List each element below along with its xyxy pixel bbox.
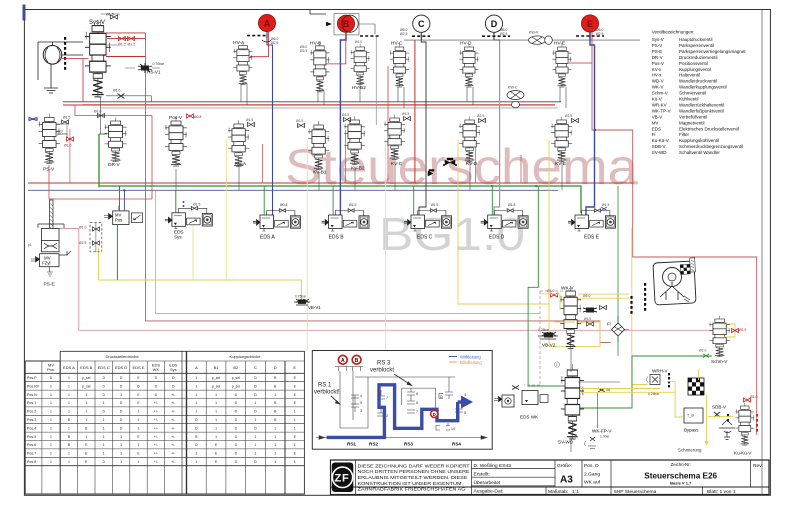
svg-text:1: 1 xyxy=(68,452,70,456)
svg-text:+/-: +/- xyxy=(171,452,175,456)
svg-text:1: 1 xyxy=(195,376,197,380)
svg-text:A: A xyxy=(264,18,271,28)
svg-text:Rev:: Rev: xyxy=(753,463,763,469)
svg-text:EDS WK: EDS WK xyxy=(520,415,539,420)
svg-text:Ø1.5: Ø1.5 xyxy=(113,89,120,93)
svg-text:RS1: RS1 xyxy=(347,442,356,447)
svg-text:Sys: Sys xyxy=(170,367,177,372)
svg-text:D. Weßling ES43: D. Weßling ES43 xyxy=(474,463,512,469)
svg-text:1: 1 xyxy=(85,393,87,397)
svg-text:1: 1 xyxy=(294,443,296,447)
svg-text:1: 1 xyxy=(274,393,276,397)
svg-text:1: 1 xyxy=(68,376,70,380)
svg-text:1: 1 xyxy=(195,393,197,397)
svg-text:Ø1.0: Ø1.0 xyxy=(94,110,101,114)
svg-text:Vorbefüllventil: Vorbefüllventil xyxy=(679,114,707,119)
svg-text:RS2: RS2 xyxy=(369,442,378,447)
svg-text:KV-E: KV-E xyxy=(555,161,566,167)
svg-text:Basis V 1.7: Basis V 1.7 xyxy=(670,481,692,486)
svg-text:FZyl: FZyl xyxy=(42,261,51,266)
svg-text:Ø1.2: Ø1.2 xyxy=(128,43,136,47)
svg-text:KV-D: KV-D xyxy=(466,161,478,167)
svg-text:1: 1 xyxy=(294,418,296,422)
svg-text:D: D xyxy=(274,365,277,370)
svg-text:Pos.RV: Pos.RV xyxy=(27,384,40,388)
svg-text:1: 1 xyxy=(138,418,140,422)
svg-text:+/-: +/- xyxy=(154,452,158,456)
svg-text:Größe:: Größe: xyxy=(557,463,572,469)
svg-text:1: 1 xyxy=(103,426,105,430)
svg-text:WD-V: WD-V xyxy=(652,79,664,84)
svg-text:KV-C: KV-C xyxy=(391,161,403,167)
svg-text:Pos-V: Pos-V xyxy=(652,61,664,66)
svg-text:10: 10 xyxy=(451,427,455,431)
svg-text:EDS D: EDS D xyxy=(115,365,127,370)
svg-text:VB-V1: VB-V1 xyxy=(308,305,321,310)
svg-text:μ60cm³: μ60cm³ xyxy=(57,132,68,136)
svg-text:Ø1.5: Ø1.5 xyxy=(296,119,303,123)
svg-text:1: 1 xyxy=(255,452,257,456)
svg-text:Ø1.5: Ø1.5 xyxy=(193,203,200,207)
svg-text:p_sel: p_sel xyxy=(82,376,90,380)
svg-text:2: 2 xyxy=(556,363,558,367)
svg-text:Ø0.8: Ø0.8 xyxy=(280,203,287,207)
svg-text:1: 1 xyxy=(294,410,296,414)
svg-text:verblockt!: verblockt! xyxy=(314,390,340,396)
svg-text:Sys-V: Sys-V xyxy=(89,20,105,26)
svg-text:RS 3: RS 3 xyxy=(377,361,391,367)
svg-text:Ø1.0: Ø1.0 xyxy=(355,40,362,44)
svg-text:6: 6 xyxy=(416,392,418,396)
svg-text:Ø5.0: Ø5.0 xyxy=(583,294,590,298)
svg-text:1: 1 xyxy=(255,443,257,447)
svg-text:Pos.P: Pos.P xyxy=(27,376,37,380)
svg-text:1: 1 xyxy=(138,443,140,447)
svg-text:1: 1 xyxy=(215,393,217,397)
svg-text:1: 1 xyxy=(215,426,217,430)
svg-text:WK: WK xyxy=(153,367,160,372)
svg-text:Ø1.0: Ø1.0 xyxy=(699,349,706,353)
svg-text:p_sel: p_sel xyxy=(232,376,240,380)
svg-text:Elektrisches Druckstellerventi: Elektrisches Druckstellerventil xyxy=(679,126,739,131)
svg-text:EDS: EDS xyxy=(652,126,661,131)
svg-text:A: A xyxy=(195,365,198,370)
svg-text:E: E xyxy=(293,365,296,370)
svg-text:+/-: +/- xyxy=(171,443,175,447)
svg-text:EDS D: EDS D xyxy=(489,235,505,241)
svg-text:WK-V: WK-V xyxy=(652,85,664,90)
svg-text:Schmierventil: Schmierventil xyxy=(679,91,706,96)
svg-text:KV-B1: KV-B1 xyxy=(313,170,327,176)
svg-text:A3: A3 xyxy=(560,475,573,486)
svg-text:1: 1 xyxy=(274,443,276,447)
svg-text:Ø1.5: Ø1.5 xyxy=(349,203,356,207)
svg-text:Kü-V: Kü-V xyxy=(652,97,662,102)
svg-text:+/-: +/- xyxy=(154,418,158,422)
svg-text:KV-B2: KV-B2 xyxy=(351,166,365,172)
svg-text:C: C xyxy=(254,365,257,370)
svg-text:p_sel: p_sel xyxy=(232,384,240,388)
svg-text:+/-: +/- xyxy=(154,435,158,439)
svg-text:1: 1 xyxy=(50,410,52,414)
svg-text:1: 1 xyxy=(68,401,70,405)
svg-text:A: A xyxy=(341,358,345,364)
svg-text:5: 5 xyxy=(464,411,466,415)
svg-text:Pos.8: Pos.8 xyxy=(27,460,36,464)
svg-text:1: 1 xyxy=(103,418,105,422)
svg-text:1: 1 xyxy=(68,460,70,464)
svg-text:Ø1.0: Ø1.0 xyxy=(79,225,86,229)
svg-text:0.25bar: 0.25bar xyxy=(295,295,307,299)
svg-text:Fi: Fi xyxy=(652,132,656,137)
svg-text:1: 1 xyxy=(195,460,197,464)
svg-text:+/-: +/- xyxy=(154,460,158,464)
svg-text:VB-V: VB-V xyxy=(652,114,663,119)
svg-text:EDS E: EDS E xyxy=(132,365,144,370)
svg-text:1: 1 xyxy=(50,384,52,388)
svg-text:Schm-V: Schm-V xyxy=(652,91,668,96)
svg-text:Halteventil: Halteventil xyxy=(679,73,700,78)
svg-text:3: 3 xyxy=(360,409,362,413)
svg-text:1: 1 xyxy=(120,393,122,397)
svg-text:ZAHNRADFABRIK FRIEDRICHSHAFEN: ZAHNRADFABRIK FRIEDRICHSHAFEN AG xyxy=(358,487,467,492)
svg-text:Pos.4: Pos.4 xyxy=(27,426,36,430)
svg-text:T_öl: T_öl xyxy=(687,414,694,418)
svg-text:0.70bar: 0.70bar xyxy=(153,62,165,66)
svg-text:B: B xyxy=(343,19,350,29)
svg-text:1: 1 xyxy=(103,401,105,405)
svg-text:Ø1.5: Ø1.5 xyxy=(246,118,253,122)
svg-text:EDS A: EDS A xyxy=(260,235,275,241)
svg-text:+/-: +/- xyxy=(171,460,175,464)
svg-text:+/-: +/- xyxy=(171,435,175,439)
svg-text:Ø1.5: Ø1.5 xyxy=(342,113,349,117)
svg-text:Ø1.5: Ø1.5 xyxy=(584,317,591,321)
svg-text:Blatt: 1 von 1: Blatt: 1 von 1 xyxy=(707,489,736,495)
svg-text:Ø2.5: Ø2.5 xyxy=(596,32,603,36)
svg-text:Pos.: Pos. xyxy=(47,367,55,372)
svg-text:1: 1 xyxy=(50,452,52,456)
svg-text:PS-V: PS-V xyxy=(652,43,663,48)
svg-text:Ku-Kü-V: Ku-Kü-V xyxy=(652,138,669,143)
svg-text:D: D xyxy=(433,412,436,417)
svg-text:Ø1.0: Ø1.0 xyxy=(750,395,757,399)
svg-text:1: 1 xyxy=(138,460,140,464)
svg-text:1.0bar: 1.0bar xyxy=(600,435,610,439)
svg-text:HV-A: HV-A xyxy=(233,40,245,46)
svg-text:+/-: +/- xyxy=(154,401,158,405)
svg-text:Schmierung: Schmierung xyxy=(678,448,702,453)
svg-text:Überarbeitet: Überarbeitet xyxy=(474,479,502,486)
svg-text:1: 1 xyxy=(274,452,276,456)
svg-text:Wandlerfußpunktventil: Wandlerfußpunktventil xyxy=(679,108,724,113)
svg-text:Pos.1: Pos.1 xyxy=(27,401,36,405)
svg-text:WK-TP-V: WK-TP-V xyxy=(652,108,671,113)
svg-text:1: 1 xyxy=(274,435,276,439)
svg-text:Druckstellerdrücke: Druckstellerdrücke xyxy=(105,354,139,359)
svg-text:1: 1 xyxy=(103,435,105,439)
svg-text:Magnetventil: Magnetventil xyxy=(679,120,705,125)
svg-text:C: C xyxy=(418,19,425,29)
svg-text:1: 1 xyxy=(274,426,276,430)
svg-text:Ventilbezeichnungen:: Ventilbezeichnungen: xyxy=(652,30,695,35)
svg-text:Kupplungskühlventil: Kupplungskühlventil xyxy=(679,138,719,143)
svg-text:Ø1.5: Ø1.5 xyxy=(508,203,515,207)
svg-text:1: 1 xyxy=(85,435,87,439)
svg-text:Pos-V: Pos-V xyxy=(169,115,183,121)
svg-text:Filter: Filter xyxy=(679,132,690,137)
svg-text:Wandlerkupplungsventil: Wandlerkupplungsventil xyxy=(679,85,727,90)
svg-text:HV-E: HV-E xyxy=(554,41,565,47)
svg-text:Ø1.5: Ø1.5 xyxy=(565,114,572,118)
svg-text:Parksperrenventil: Parksperrenventil xyxy=(679,43,714,48)
svg-text:+/-: +/- xyxy=(154,426,158,430)
svg-text:SDB-V: SDB-V xyxy=(652,144,666,149)
svg-text:Schm-V: Schm-V xyxy=(711,359,728,364)
svg-text:SV-WD: SV-WD xyxy=(652,150,668,155)
svg-text:DIESE ZEICHNUNG DARF WEDER KOP: DIESE ZEICHNUNG DARF WEDER KOPIERT xyxy=(358,463,470,468)
svg-text:EDS E: EDS E xyxy=(584,235,600,241)
svg-text:MV: MV xyxy=(652,120,659,125)
svg-text:SDB-V: SDB-V xyxy=(712,405,727,410)
svg-text:+/-: +/- xyxy=(171,401,175,405)
svg-text:4: 4 xyxy=(464,393,466,397)
svg-text:1: 1 xyxy=(138,426,140,430)
svg-text:1: 1 xyxy=(274,460,276,464)
svg-text:verblockt: verblockt xyxy=(370,368,394,374)
svg-text:Parksperrenverriegelungsmagnet: Parksperrenverriegelungsmagnet xyxy=(679,49,746,54)
svg-text:PS-E: PS-E xyxy=(44,282,55,288)
svg-text:KW-V: KW-V xyxy=(529,31,539,35)
svg-text:1: 1 xyxy=(103,443,105,447)
svg-text:1: 1 xyxy=(255,418,257,422)
svg-text:Kupplungsdrücke: Kupplungsdrücke xyxy=(230,354,262,359)
svg-text:1: 1 xyxy=(50,418,52,422)
svg-text:Pos.6: Pos.6 xyxy=(27,443,36,447)
svg-text:Pos.N: Pos.N xyxy=(27,393,37,397)
svg-text:+/-: +/- xyxy=(171,410,175,414)
svg-text:1: 1 xyxy=(50,460,52,464)
svg-text:1: 1 xyxy=(215,435,217,439)
svg-text:HV-x: HV-x xyxy=(652,73,663,78)
svg-text:VB-V2: VB-V2 xyxy=(542,343,556,348)
svg-text:7: 7 xyxy=(386,396,388,400)
svg-text:NOCH DRITTEN PERSONEN OHNE UNS: NOCH DRITTEN PERSONEN OHNE UNSERE xyxy=(358,469,470,474)
svg-text:1: 1 xyxy=(138,410,140,414)
svg-text:E: E xyxy=(587,19,593,29)
svg-text:Blindleitung: Blindleitung xyxy=(460,360,482,365)
svg-text:Pos. D: Pos. D xyxy=(584,463,599,469)
svg-text:Wandlerdruckventil: Wandlerdruckventil xyxy=(679,79,717,84)
svg-text:Ausgabe-Dat:: Ausgabe-Dat: xyxy=(474,489,504,495)
svg-text:KONSTRUKTION IST UNSER EIGENTU: KONSTRUKTION IST UNSER EIGENTUM xyxy=(358,481,462,486)
svg-text:Ø1.5: Ø1.5 xyxy=(63,116,70,120)
svg-text:B2: B2 xyxy=(233,365,239,370)
svg-text:KV-x: KV-x xyxy=(652,67,662,72)
svg-text:1: 1 xyxy=(195,384,197,388)
svg-text:Kupplungsventil: Kupplungsventil xyxy=(679,67,711,72)
svg-text:EDS A: EDS A xyxy=(63,365,75,370)
svg-text:Ø1.5: Ø1.5 xyxy=(477,114,484,118)
svg-text:Pos.5: Pos.5 xyxy=(27,435,36,439)
svg-text:Ø2.5: Ø2.5 xyxy=(300,49,307,53)
svg-text:D: D xyxy=(491,19,498,29)
svg-text:1: 1 xyxy=(120,435,122,439)
svg-text:ERLAUBNIS MITGETEILT WERDEN. D: ERLAUBNIS MITGETEILT WERDEN. DIESE xyxy=(358,475,468,480)
svg-text:HV-B2: HV-B2 xyxy=(352,85,366,91)
svg-text:+/-: +/- xyxy=(154,443,158,447)
svg-text:WR-KV: WR-KV xyxy=(652,102,667,107)
svg-text:Maßstab:: Maßstab: xyxy=(548,489,568,495)
svg-text:1: 1 xyxy=(294,460,296,464)
svg-text:Ø0.8: Ø0.8 xyxy=(194,115,201,119)
svg-text:1: 1 xyxy=(50,443,52,447)
svg-text:EDS C: EDS C xyxy=(417,235,433,241)
svg-text:Ø2.5: Ø2.5 xyxy=(271,41,278,45)
svg-text:1: 1 xyxy=(50,426,52,430)
svg-text:PS-V: PS-V xyxy=(43,167,55,173)
svg-text:1: 1 xyxy=(68,393,70,397)
svg-text:Ø1.5: Ø1.5 xyxy=(106,13,114,17)
svg-text:WK-FP-V: WK-FP-V xyxy=(592,429,612,434)
svg-text:D: D xyxy=(440,395,443,399)
svg-text:1: 1 xyxy=(50,401,52,405)
svg-text:EDS C: EDS C xyxy=(98,365,110,370)
svg-text:1: 1 xyxy=(68,426,70,430)
svg-text:1: 1 xyxy=(85,418,87,422)
svg-text:p_sel: p_sel xyxy=(212,384,220,388)
svg-text:Wandlerrückhalteventil: Wandlerrückhalteventil xyxy=(679,102,724,107)
svg-text:Ø1.5: Ø1.5 xyxy=(431,203,438,207)
svg-text:Sys-V: Sys-V xyxy=(652,37,664,42)
svg-text:1: 1 xyxy=(215,410,217,414)
svg-text:Z: Z xyxy=(335,473,342,485)
svg-text:Ø2.5: Ø2.5 xyxy=(500,32,507,36)
svg-text:EDS B: EDS B xyxy=(80,365,92,370)
svg-text:PS-E: PS-E xyxy=(652,49,663,54)
svg-text:HV-C: HV-C xyxy=(391,41,403,47)
svg-text:1: 1 xyxy=(215,401,217,405)
svg-text:EDS B: EDS B xyxy=(329,235,345,241)
svg-text:1: 1 xyxy=(255,435,257,439)
svg-text:Wirkleitung: Wirkleitung xyxy=(460,354,481,359)
svg-text:1: 1 xyxy=(215,418,217,422)
svg-text:WRH-V: WRH-V xyxy=(652,369,669,374)
svg-text:Ø1.5: Ø1.5 xyxy=(402,112,409,116)
svg-text:1: 1 xyxy=(50,393,52,397)
svg-text:Schmierdruckbegrenzungsventil: Schmierdruckbegrenzungsventil xyxy=(679,144,743,149)
svg-text:Pos: Pos xyxy=(115,218,122,223)
svg-text:RS 1: RS 1 xyxy=(318,383,332,389)
svg-text:F: F xyxy=(342,473,349,485)
svg-text:Pos.3: Pos.3 xyxy=(27,418,36,422)
svg-text:KV-A: KV-A xyxy=(235,161,247,167)
svg-text:Fi: Fi xyxy=(607,322,611,327)
svg-text:1: 1 xyxy=(68,384,70,388)
svg-text:KW-C: KW-C xyxy=(508,86,518,90)
svg-text:HV-B: HV-B xyxy=(310,41,321,47)
svg-text:B: B xyxy=(355,358,359,364)
svg-text:1: 1 xyxy=(68,410,70,414)
svg-text:Ø2.5: Ø2.5 xyxy=(400,32,407,36)
svg-text:Sys: Sys xyxy=(174,235,182,240)
svg-text:Schaltventil Wandler: Schaltventil Wandler xyxy=(679,150,720,155)
svg-text:1: 1 xyxy=(50,435,52,439)
svg-text:9: 9 xyxy=(360,401,362,405)
svg-text:Erstellt:: Erstellt: xyxy=(474,471,490,477)
svg-text:DR-V: DR-V xyxy=(108,162,121,168)
svg-text:p1: p1 xyxy=(28,243,32,247)
svg-text:2.Gang: 2.Gang xyxy=(584,471,600,477)
svg-text:RS-V1: RS-V1 xyxy=(147,70,161,75)
svg-text:1: 1 xyxy=(120,452,122,456)
svg-text:+/-: +/- xyxy=(154,410,158,414)
svg-text:2: 2 xyxy=(386,414,388,418)
svg-text:WK-V: WK-V xyxy=(561,286,574,292)
svg-text:5HP Steuerschema: 5HP Steuerschema xyxy=(614,489,657,495)
svg-text:Kühlventil: Kühlventil xyxy=(679,97,699,102)
svg-text:p_sel: p_sel xyxy=(212,376,220,380)
svg-text:p_sel: p_sel xyxy=(82,384,90,388)
svg-text:1: 1 xyxy=(195,452,197,456)
svg-text:Druckreduzierventil: Druckreduzierventil xyxy=(679,55,718,60)
svg-text:1:1: 1:1 xyxy=(572,489,579,495)
svg-text:SV-WD: SV-WD xyxy=(558,440,574,445)
svg-text:+/-: +/- xyxy=(171,426,175,430)
svg-text:Positionsventil: Positionsventil xyxy=(679,61,708,66)
svg-text:B1: B1 xyxy=(214,365,220,370)
svg-text:DR-V: DR-V xyxy=(652,55,663,60)
svg-text:Ø1.0: Ø1.0 xyxy=(64,144,71,148)
svg-text:Steuerschema E26: Steuerschema E26 xyxy=(644,472,717,481)
svg-text:1: 1 xyxy=(120,443,122,447)
svg-text:1: 1 xyxy=(294,426,296,430)
svg-text:1: 1 xyxy=(195,401,197,405)
svg-text:Ø1.5: Ø1.5 xyxy=(739,328,746,332)
svg-text:1: 1 xyxy=(195,410,197,414)
svg-text:1: 1 xyxy=(85,401,87,405)
svg-text:Pos.7: Pos.7 xyxy=(27,452,36,456)
svg-text:+/-: +/- xyxy=(171,418,175,422)
svg-text:Bypass: Bypass xyxy=(684,428,699,433)
svg-text:Ø2.5: Ø2.5 xyxy=(79,241,86,245)
svg-text:+/-: +/- xyxy=(171,393,175,397)
svg-text:RS4: RS4 xyxy=(452,442,461,447)
svg-text:4: 4 xyxy=(360,394,362,398)
svg-text:1: 1 xyxy=(255,401,257,405)
svg-text:Ø1.5: Ø1.5 xyxy=(602,203,609,207)
svg-text:Hauptdruckventil: Hauptdruckventil xyxy=(679,37,713,42)
svg-text:1: 1 xyxy=(120,460,122,464)
svg-text:RS3: RS3 xyxy=(404,442,413,447)
svg-text:8: 8 xyxy=(416,401,418,405)
svg-text:WK auf: WK auf xyxy=(584,480,601,486)
svg-text:Ku-Kü-V: Ku-Kü-V xyxy=(734,451,752,456)
svg-text:1: 1 xyxy=(103,452,105,456)
svg-text:1: 1 xyxy=(85,410,87,414)
svg-text:7: 7 xyxy=(416,410,418,414)
svg-text:HV-D: HV-D xyxy=(460,41,472,47)
svg-text:Zeichn-Nr:: Zeichn-Nr: xyxy=(671,462,691,467)
svg-text:Ø1.2: Ø1.2 xyxy=(118,43,126,47)
svg-text:Pos.2: Pos.2 xyxy=(27,410,36,414)
